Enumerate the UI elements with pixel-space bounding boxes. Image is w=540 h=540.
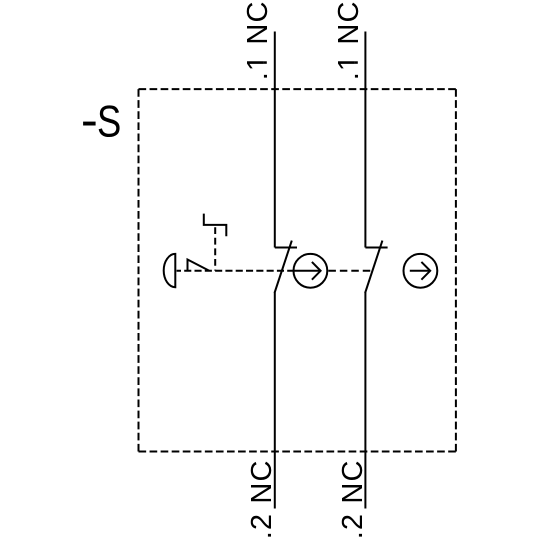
- svg-text:.2 NC: .2 NC: [337, 459, 369, 539]
- latching detent symbol: [188, 260, 210, 271]
- contact 2 terminal .2 wire: [364, 293, 366, 509]
- NC contact 1 moving contact (diagonal): [275, 241, 292, 293]
- NC contact 1 fixed terminal bar: [275, 247, 297, 249]
- svg-text:.1 NC: .1 NC: [242, 0, 274, 80]
- mechanical linkage (dashed) actuator to circle 1: [177, 270, 294, 272]
- positive opening symbol circle (contact 2): [404, 254, 438, 288]
- contact 1 terminal .2 wire: [274, 293, 276, 509]
- enclosure left edge (dashed): [138, 89, 140, 451]
- NC contact 2 fixed terminal bar: [365, 247, 387, 249]
- device designator -S (hyphen): [83, 122, 96, 126]
- mechanical linkage (dashed) circle 1 to contact 2: [328, 270, 370, 272]
- NC contact 2 moving contact (diagonal): [365, 241, 382, 293]
- twist-release reset symbol (step): [204, 214, 227, 237]
- enclosure bottom edge (dashed): [139, 451, 456, 453]
- positive opening arrow (contact 2): [410, 270, 430, 272]
- positive opening arrow (contact 1): [294, 270, 321, 272]
- contact 2 terminal .1 wire: [364, 32, 366, 248]
- svg-text:.2 NC: .2 NC: [246, 459, 278, 539]
- contact 1 terminal .1 wire: [274, 32, 276, 248]
- enclosure top edge (dashed): [139, 88, 456, 90]
- svg-text:S: S: [97, 96, 121, 146]
- mushroom head actuator: [164, 254, 176, 287]
- svg-text:.1 NC: .1 NC: [333, 0, 365, 80]
- reset linkage (vertical dashed): [214, 227, 216, 270]
- positive opening symbol circle (contact 1): [294, 254, 328, 288]
- enclosure right edge (dashed): [455, 89, 457, 451]
